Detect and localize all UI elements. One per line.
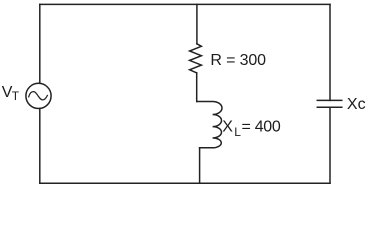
wire: bottom border [40, 182, 330, 184]
svg-text:T: T [12, 89, 20, 103]
wire: from inductor bottom to bottom border [199, 148, 201, 183]
inductor XL coil of four loops [197, 102, 222, 148]
wire: left side below source [39, 109, 41, 184]
label VT for source [2, 84, 20, 103]
svg-text:Xc: Xc [347, 96, 366, 113]
capacitor Xc top plate [317, 99, 342, 101]
wire: right side above capacitor [329, 4, 331, 100]
wire: middle branch from top border to resistor [196, 4, 198, 43]
wire: left side above source [39, 4, 41, 83]
svg-text:R = 300: R = 300 [210, 52, 266, 69]
svg-text:= 400: = 400 [242, 118, 281, 135]
wire: top border from left corner to right corner [40, 3, 330, 5]
svg-text:X: X [222, 118, 233, 135]
capacitor Xc bottom plate [317, 106, 342, 108]
resistor R zigzag [190, 44, 202, 73]
wire: right side below capacitor [329, 107, 331, 183]
wire: between resistor and inductor [196, 73, 198, 102]
AC source VT [26, 83, 51, 108]
svg-text:L: L [234, 125, 241, 139]
label XL = 400 for inductor [222, 118, 281, 139]
sine wave inside source [29, 92, 48, 100]
